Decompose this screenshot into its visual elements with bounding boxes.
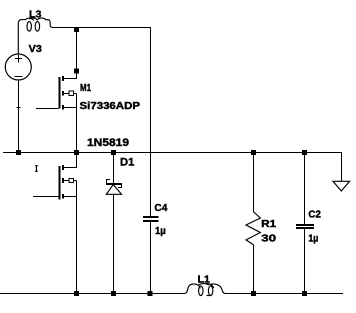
- wire: D1 bottom lead: [112, 194, 114, 293]
- voltage source V3 minus mark: [14, 76, 22, 78]
- wire: switch column lower vertical: [149, 222, 151, 293]
- label I (serif): [35, 166, 38, 172]
- junction dot: mid rail / M column: [74, 150, 79, 155]
- wire: M1 source to mid rail: [75, 107, 77, 152]
- junction dot: mid rail / D1: [111, 150, 116, 155]
- diode D1 schottky right hook: [118, 185, 121, 188]
- svg-text:D1: D1: [120, 157, 134, 169]
- junction dot: mid rail / V3: [16, 150, 21, 155]
- svg-text:1N5819: 1N5819: [87, 137, 129, 149]
- mosfet M2 bulk square: [69, 178, 73, 182]
- mosfet M2 channel segments: [62, 165, 64, 199]
- wire: R1 bottom lead: [252, 245, 254, 294]
- junction dot: M1 drain: [74, 68, 79, 73]
- mosfet M1 bulk stub: [62, 92, 69, 94]
- wire: M2 gate lead: [33, 195, 58, 197]
- svg-text:Si7336ADP: Si7336ADP: [80, 101, 141, 112]
- svg-text:L3: L3: [29, 9, 42, 20]
- junction dot: bottom rail / C4: [147, 291, 152, 296]
- resistor R1 zigzag: [246, 212, 260, 245]
- capacitor C2 top plate: [296, 224, 314, 226]
- mosfet M2 source stub: [62, 195, 76, 197]
- svg-text:L1: L1: [198, 274, 211, 285]
- junction dot: bottom rail / M2 source: [74, 291, 79, 296]
- tick on V3 lower lead: [16, 107, 20, 109]
- wire: M2 source to bottom rail: [75, 196, 77, 293]
- wire: M1 gate lead: [36, 107, 58, 109]
- diode D1 schottky cathode bar: [106, 183, 122, 185]
- junction dot: top rail / M1 drain column: [74, 27, 79, 32]
- wire: C2 bottom lead: [303, 229, 305, 293]
- svg-text:V3: V3: [29, 44, 43, 55]
- svg-text:1µ: 1µ: [155, 226, 166, 237]
- mosfet M1 channel segments: [62, 76, 64, 110]
- junction dot: mid rail / R1: [251, 150, 256, 155]
- mosfet M2 bulk-to-source link: [74, 180, 77, 196]
- ground triangle: [333, 181, 350, 191]
- mosfet M1 source stub: [62, 106, 76, 108]
- diode D1 schottky left hook: [107, 180, 110, 184]
- svg-text:30: 30: [261, 234, 277, 245]
- wire: D1 top lead: [112, 152, 114, 183]
- svg-text:M1: M1: [80, 83, 91, 94]
- voltage source V3 circle: [5, 54, 31, 80]
- diode D1 triangle: [106, 185, 121, 195]
- mosfet M1 gate bar: [58, 77, 60, 109]
- capacitor C4 top plate: [143, 216, 158, 218]
- svg-text:C4: C4: [154, 203, 167, 214]
- svg-text:R1: R1: [261, 219, 276, 230]
- capacitor C4 bottom plate: [143, 220, 158, 222]
- mosfet M2 bulk stub: [62, 179, 69, 181]
- wire: R1 top lead: [252, 152, 254, 211]
- wire: mid horizontal rail: [3, 151, 342, 153]
- capacitor C2 bottom plate: [296, 227, 314, 229]
- junction dot: bottom rail / C2: [302, 291, 307, 296]
- svg-text:1µ: 1µ: [308, 233, 318, 244]
- junction dot: bottom rail / R1: [251, 291, 256, 296]
- wire: V3 bottom lead: [17, 80, 19, 152]
- wire: bottom rail right of L1: [225, 292, 343, 294]
- inductor L3: [18, 18, 52, 54]
- mosfet M1 drain lead: [62, 27, 76, 78]
- junction dot: bottom rail / D1: [111, 291, 116, 296]
- wire: bottom rail left of L1: [0, 292, 185, 294]
- junction dot: mid rail / C2: [302, 150, 307, 155]
- inductor L1: [185, 284, 225, 294]
- wire: switch column upper vertical: [149, 27, 151, 216]
- wire: C2 top lead: [303, 152, 305, 224]
- mosfet M2 gate bar: [58, 166, 60, 199]
- voltage source V3 plus mark: [15, 55, 22, 62]
- wire: top rail from L3 to switch column: [52, 26, 151, 28]
- svg-text:C2: C2: [308, 209, 321, 220]
- mosfet M1 bulk-to-source link: [74, 93, 77, 107]
- mosfet M2 drain lead: [62, 152, 76, 167]
- wire: ground drop: [340, 152, 342, 181]
- mosfet M1 bulk square: [69, 91, 73, 95]
